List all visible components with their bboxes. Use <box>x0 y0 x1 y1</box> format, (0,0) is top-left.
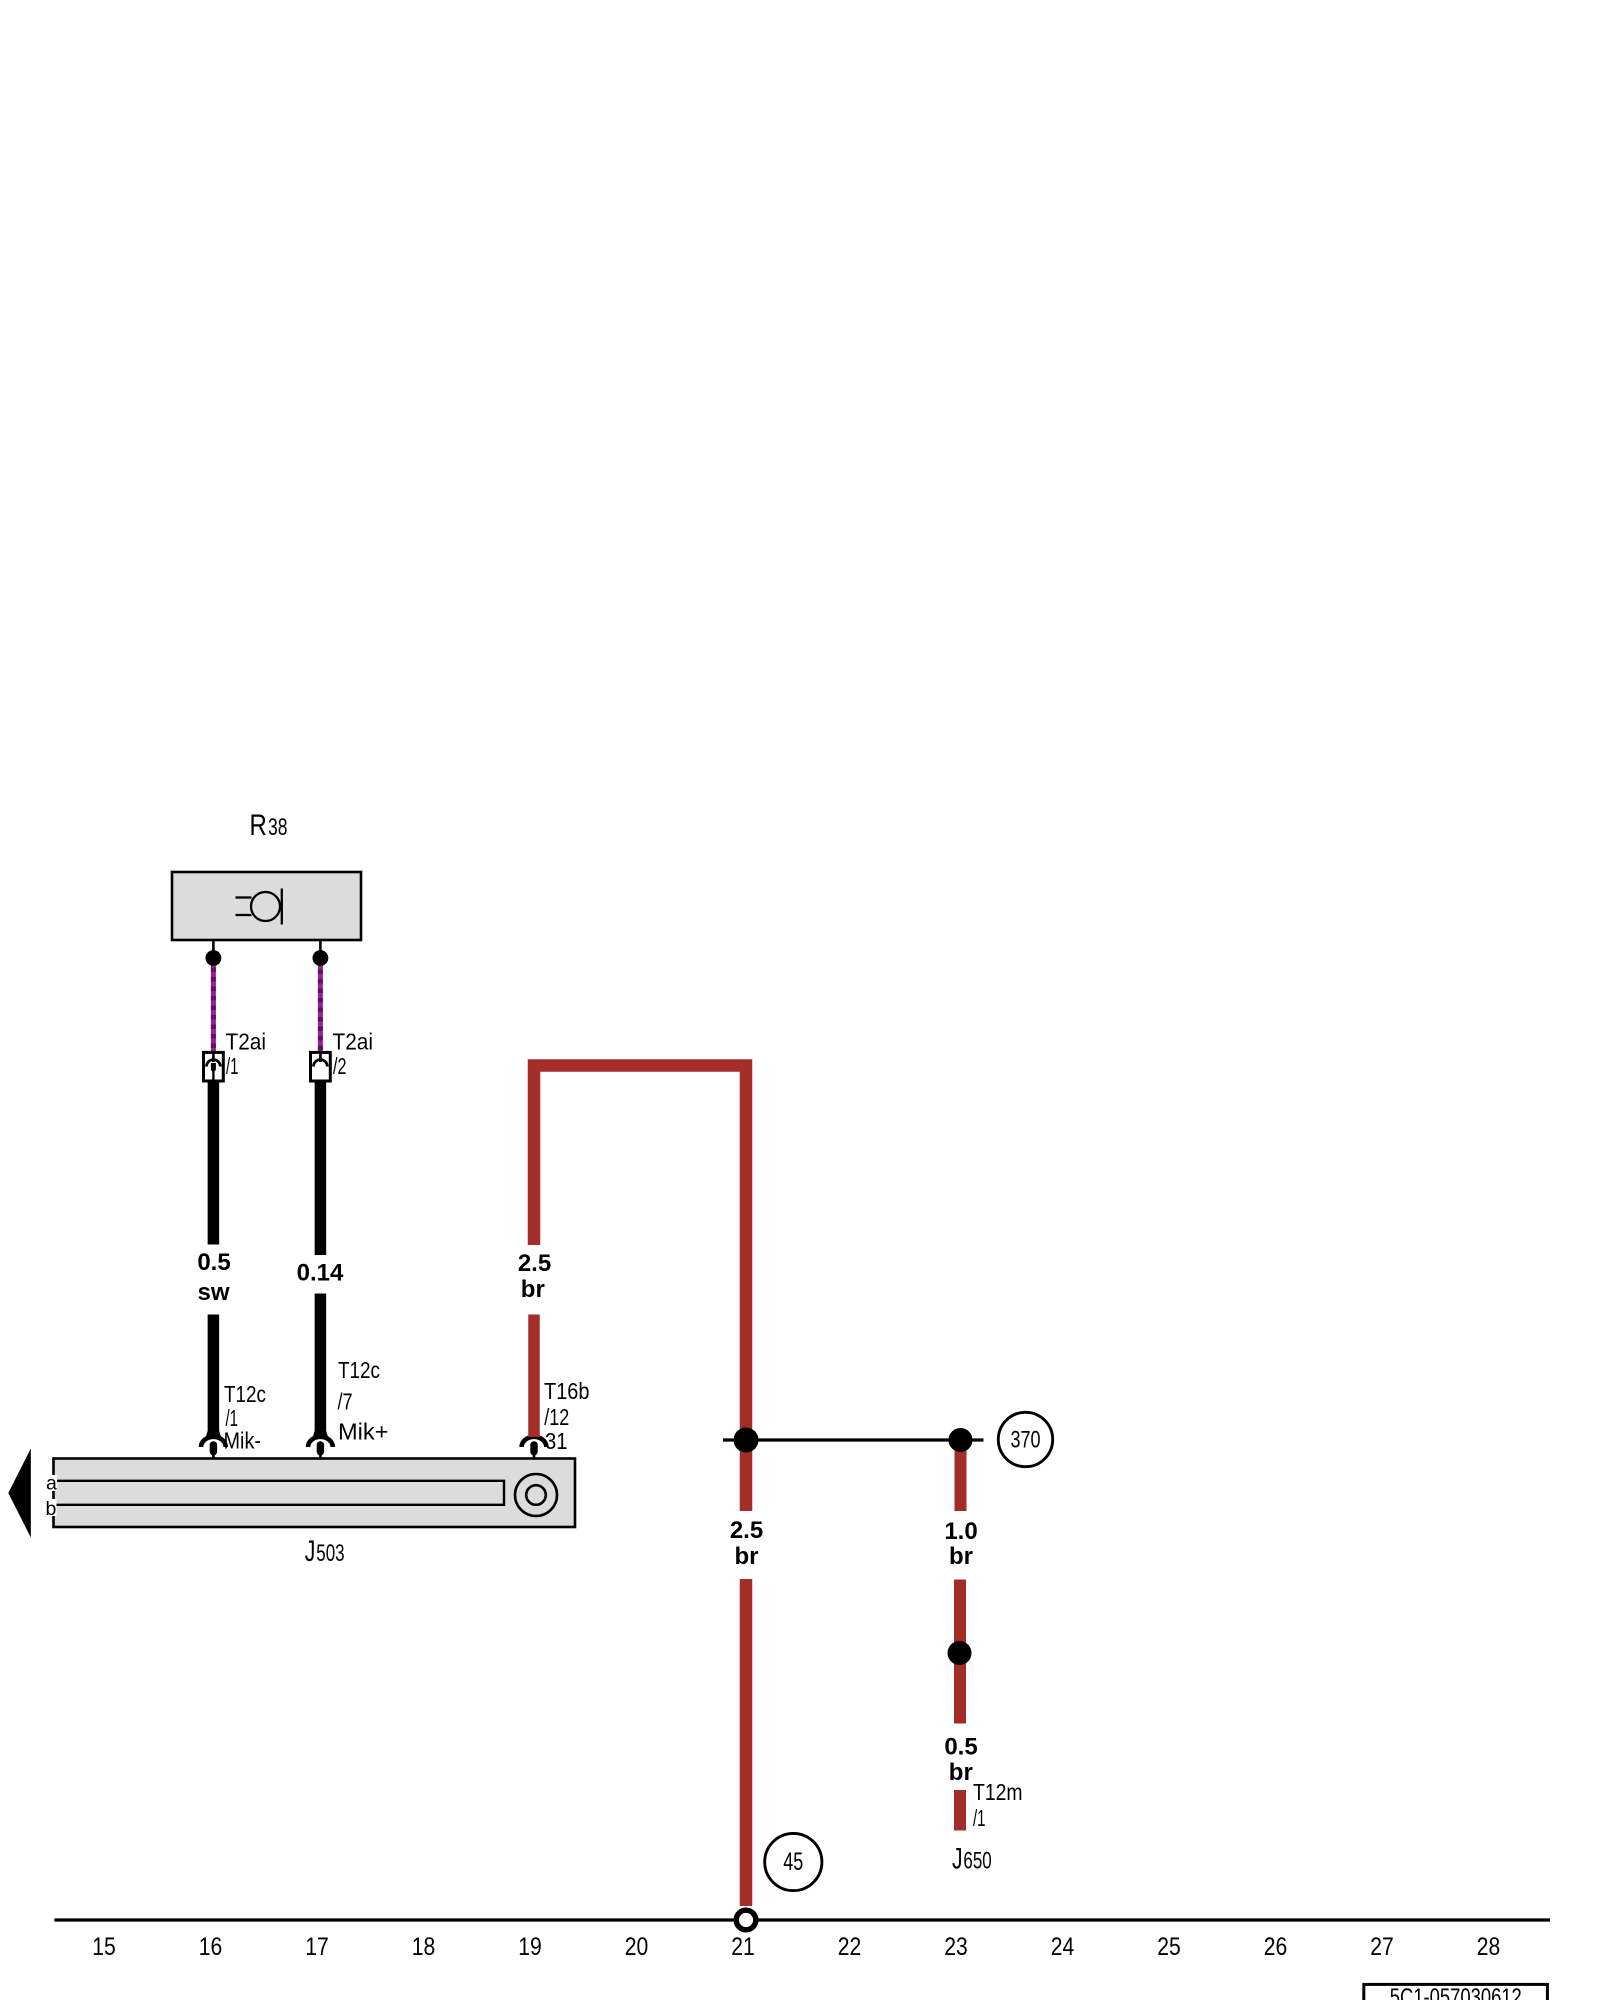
svg-text:45: 45 <box>783 1848 803 1876</box>
label 2.5 br (main) <box>730 1517 763 1570</box>
connector T2ai/2 <box>311 1052 331 1081</box>
svg-text:17: 17 <box>305 1933 329 1961</box>
wire red below junction 21 <box>740 1440 753 1511</box>
svg-text:25: 25 <box>1157 1933 1181 1961</box>
J503 inner channel a/b <box>55 1481 505 1505</box>
baseline track <box>54 1918 1550 1921</box>
wire red 1.0 br lower <box>954 1580 966 1724</box>
svg-text:19: 19 <box>518 1933 542 1961</box>
wire purple-black to T2ai/1 <box>211 958 216 1053</box>
microphone R38 box <box>172 872 361 940</box>
svg-text:T12c: T12c <box>338 1357 380 1383</box>
svg-text:a: a <box>46 1473 57 1495</box>
wire black 0.14 upper <box>315 1081 327 1255</box>
svg-text:15: 15 <box>92 1933 116 1961</box>
wire red stub T12m <box>954 1790 966 1831</box>
svg-text:1.0: 1.0 <box>944 1518 977 1545</box>
microphone symbol <box>236 889 282 925</box>
svg-text:370: 370 <box>1011 1427 1041 1454</box>
label 2.5 br (T16b) <box>518 1250 551 1303</box>
svg-text:0.5: 0.5 <box>197 1249 230 1276</box>
svg-text:38: 38 <box>268 814 288 841</box>
svg-text:26: 26 <box>1264 1933 1288 1961</box>
svg-text:br: br <box>949 1759 973 1786</box>
label 0.5 br <box>944 1734 977 1787</box>
document number box <box>1364 1984 1548 2000</box>
pin stub R38 pin2 <box>319 940 322 951</box>
arrow continuation left <box>8 1449 31 1538</box>
svg-text:J: J <box>952 1843 963 1876</box>
control unit J503 box <box>54 1459 576 1528</box>
svg-text:T16b: T16b <box>544 1378 590 1404</box>
svg-text:T12c: T12c <box>224 1381 266 1407</box>
svg-text:T12m: T12m <box>973 1779 1023 1805</box>
wire black 0.14 lower <box>315 1294 327 1437</box>
socket T12c/7 at J503 <box>308 1431 333 1462</box>
label a <box>44 1473 57 1495</box>
svg-text:21: 21 <box>731 1933 755 1961</box>
node circle 45 <box>765 1833 822 1890</box>
grid numbers 15-28 <box>92 1933 1500 1961</box>
J503 double circle <box>515 1474 557 1516</box>
svg-text:/2: /2 <box>333 1053 347 1079</box>
svg-text:31: 31 <box>545 1428 568 1454</box>
wire purple-black to T2ai/2 <box>318 958 323 1053</box>
ground terminal open circle <box>736 1910 756 1930</box>
svg-text:18: 18 <box>412 1933 436 1961</box>
svg-text:5C1-057030612: 5C1-057030612 <box>1390 1984 1522 2000</box>
wire red main to ground <box>740 1579 753 1906</box>
label J503 <box>305 1535 345 1568</box>
svg-text:0.14: 0.14 <box>297 1260 344 1287</box>
wire black bus line <box>723 1438 984 1441</box>
label 1.0 br <box>944 1518 977 1570</box>
junction dot pin1 <box>206 950 222 966</box>
svg-text:2.5: 2.5 <box>730 1517 763 1544</box>
pin stub R38 pin1 <box>212 940 215 951</box>
junction dot 23 <box>949 1428 973 1452</box>
svg-text:Mik-: Mik- <box>224 1428 262 1454</box>
svg-text:R: R <box>250 809 267 842</box>
svg-text:J: J <box>305 1535 316 1568</box>
label 0.5 sw <box>197 1249 230 1306</box>
svg-text:sw: sw <box>197 1279 229 1306</box>
svg-text:20: 20 <box>625 1933 649 1961</box>
label J650 <box>952 1843 992 1876</box>
svg-text:T2ai: T2ai <box>226 1029 267 1055</box>
junction dot 21 <box>734 1428 759 1453</box>
svg-text:2.5: 2.5 <box>518 1250 551 1277</box>
junction dot pin2 <box>313 950 329 966</box>
wire red 1.0 br upper <box>955 1440 967 1511</box>
microphone R38 label <box>250 809 288 842</box>
wire black 0.5 sw lower <box>208 1315 220 1437</box>
svg-text:b: b <box>46 1498 57 1520</box>
svg-text:/12: /12 <box>544 1404 569 1430</box>
label T12c/7 Mik+ <box>338 1357 389 1445</box>
socket T12c/1 at J503 <box>201 1431 226 1462</box>
svg-text:503: 503 <box>316 1540 344 1567</box>
svg-text:24: 24 <box>1051 1933 1075 1961</box>
svg-text:16: 16 <box>199 1933 223 1961</box>
svg-text:br: br <box>949 1543 973 1570</box>
svg-text:Mik+: Mik+ <box>338 1419 389 1445</box>
label T2ai/2 <box>333 1029 374 1080</box>
svg-text:650: 650 <box>963 1848 991 1875</box>
label b <box>44 1498 57 1520</box>
label T12m/1 <box>973 1779 1023 1831</box>
svg-text:22: 22 <box>838 1933 862 1961</box>
svg-text:28: 28 <box>1477 1933 1501 1961</box>
svg-text:T2ai: T2ai <box>333 1029 374 1055</box>
svg-text:/7: /7 <box>338 1389 353 1415</box>
label T16b/12 31 <box>544 1378 590 1454</box>
svg-text:br: br <box>521 1276 545 1303</box>
svg-text:br: br <box>735 1543 759 1570</box>
svg-text:0.5: 0.5 <box>944 1734 977 1761</box>
svg-text:/1: /1 <box>973 1805 986 1831</box>
connector T2ai/1 <box>204 1052 224 1081</box>
svg-text:/1: /1 <box>226 1053 239 1079</box>
svg-text:27: 27 <box>1370 1933 1394 1961</box>
label T2ai/1 <box>226 1029 267 1080</box>
wire black 0.5 sw upper <box>208 1081 220 1245</box>
socket T16b/12 at J503 <box>522 1437 547 1462</box>
svg-text:23: 23 <box>944 1933 968 1961</box>
label T12c/1 Mik- <box>224 1381 267 1454</box>
junction dot J650 branch <box>948 1641 972 1665</box>
wire red elbow top <box>534 1066 746 1441</box>
wire red 2.5 br T16b lower <box>528 1315 540 1438</box>
node circle 370 <box>998 1412 1052 1466</box>
